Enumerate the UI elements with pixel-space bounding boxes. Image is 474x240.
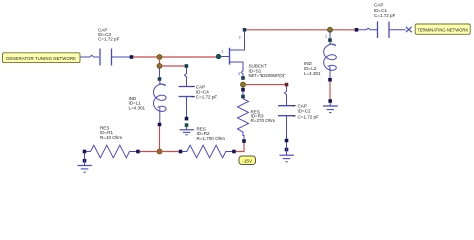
inductor L1 [129,68,167,127]
terminal below source node [241,88,245,92]
inductor L2 [304,30,336,82]
-15V bias label [239,156,256,165]
node junction J4 at source [241,82,246,87]
svg-text:TERMINATING NETWORK: TERMINATING NETWORK [417,27,468,32]
bottom rail wire R1 to R2 [140,151,179,153]
terminating network box [415,24,470,34]
wire from generator box to C3 [80,55,99,57]
wire J1 down to J2 [159,57,161,66]
svg-text:GENERATOR TUNING NETWORK: GENERATOR TUNING NETWORK [6,56,76,61]
svg-text:-15V: -15V [242,158,253,163]
capacitor C4 [179,68,218,117]
svg-text:C=1.72 pF: C=1.72 pF [196,95,218,100]
svg-text:L=4.301: L=4.301 [304,71,321,76]
resistor R1 [83,126,140,158]
wire R3 top to source node [242,87,244,95]
terminal of C2 top pin [285,83,289,87]
terminal of C4 bottom pin [185,117,189,121]
svg-text:1: 1 [222,49,224,53]
wire L2 bottom to ground terminal [329,82,331,101]
wire R1 left terminal to ground [84,153,86,162]
svg-text:1: 1 [325,34,327,38]
capacitor C1 [358,3,405,38]
svg-text:NET="B3200587(0)": NET="B3200587(0)" [249,73,287,78]
wire source node to C2 [245,84,285,86]
svg-text:R=1,700 Ohm: R=1,700 Ohm [197,136,226,141]
wire L1 bottom to bottom rail [159,126,161,151]
svg-text:L=4.301: L=4.301 [129,105,146,110]
wire C3 to gate of S1 [133,56,216,58]
svg-text:ID=C2: ID=C2 [298,108,311,113]
capacitor C2 [278,86,319,138]
terminal of C4 top pin [185,64,189,68]
wire J2 to C4 top [160,65,185,67]
terminal of C1 left pin [355,28,359,32]
terminal of ground pin under R1 left [83,159,87,163]
svg-text:C=1.72 pF: C=1.72 pF [298,114,320,119]
svg-text:ID=C1: ID=C1 [374,8,387,13]
terminal of C2 bottom pin [285,139,289,143]
drain rail wire [246,29,355,31]
ground under R1 [78,163,92,173]
subckt S1 FET symbol [216,32,286,79]
ground under C2 [280,155,294,162]
generator tuning network box [3,53,81,63]
wire C2 to ground [286,142,288,155]
ground under L2 [323,103,338,113]
svg-text:CAP: CAP [374,3,383,8]
svg-text:3: 3 [238,72,240,76]
ground under C4 [180,127,194,135]
port arrow into terminating network [406,27,412,32]
svg-text:2: 2 [239,36,241,40]
node junction J2 [157,64,162,69]
svg-text:C=1.72 pF: C=1.72 pF [374,13,396,18]
resistor R2 [179,127,236,158]
terminal of S1 drain pin [243,28,247,32]
terminal of ground pin under C2 [285,148,289,152]
terminal of ground pin under L2 [328,99,332,103]
terminal of ground pin under C4 [185,123,189,127]
node junction J3 on bottom rail [157,149,162,154]
node junction J1 [157,55,162,60]
terminal of C3 right pin [130,55,134,59]
wire R2 right up to R3 bottom [236,141,244,152]
capacitor C3 [98,27,130,65]
resistor R3 [238,95,276,143]
terminal of S1 source pin [241,76,245,80]
node junction J5 on drain rail [328,27,333,32]
svg-text:R=10 Ohm: R=10 Ohm [100,135,122,140]
svg-text:C=1.72 pF: C=1.72 pF [98,37,120,42]
svg-text:R=270 Ohm: R=270 Ohm [251,118,276,123]
